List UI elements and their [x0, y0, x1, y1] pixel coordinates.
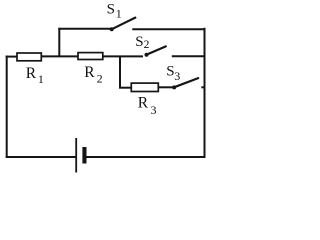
- svg-text:2: 2: [144, 39, 150, 51]
- svg-text:R: R: [84, 64, 95, 81]
- svg-text:3: 3: [151, 103, 157, 117]
- svg-text:1: 1: [116, 7, 122, 21]
- svg-text:R: R: [138, 95, 149, 112]
- svg-text:1: 1: [38, 72, 44, 86]
- svg-text:3: 3: [174, 69, 180, 83]
- svg-text:S: S: [135, 34, 143, 50]
- svg-text:2: 2: [97, 71, 103, 85]
- svg-text:S: S: [107, 2, 115, 18]
- svg-text:R: R: [26, 65, 37, 82]
